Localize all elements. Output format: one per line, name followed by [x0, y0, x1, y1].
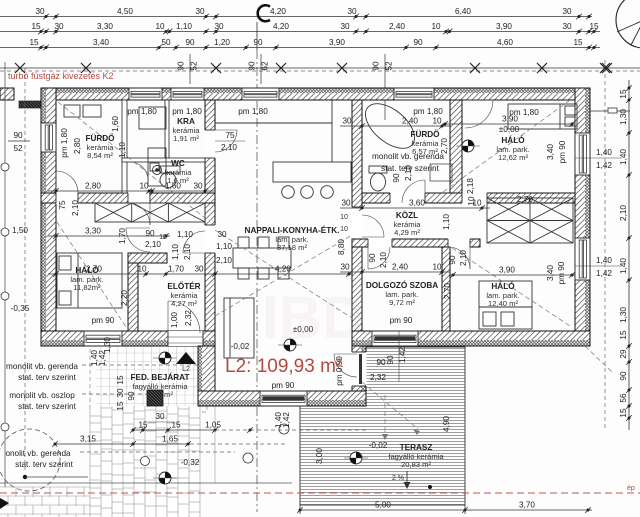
- svg-text:1,00: 1,00: [170, 312, 179, 328]
- terrace slope arrow: [392, 471, 432, 489]
- exterior wall: left: [41, 88, 56, 346]
- north symbol: [616, 0, 640, 48]
- svg-text:90: 90: [619, 371, 628, 381]
- svg-text:1,10: 1,10: [171, 244, 180, 260]
- svg-text:15: 15: [619, 89, 628, 99]
- svg-text:2,40: 2,40: [392, 263, 408, 272]
- svg-text:10: 10: [139, 182, 149, 191]
- svg-text:15: 15: [171, 421, 181, 430]
- svg-text:90: 90: [368, 253, 377, 263]
- svg-text:2,70: 2,70: [443, 283, 452, 299]
- closet unit: [487, 198, 573, 243]
- svg-text:52: 52: [190, 61, 199, 71]
- svg-text:3,30: 3,30: [85, 227, 101, 236]
- bed top-right: [508, 104, 577, 129]
- svg-text:1,10: 1,10: [177, 230, 193, 239]
- svg-text:3,40: 3,40: [93, 38, 109, 47]
- flue stub: [19, 101, 41, 108]
- red dashed boundary: [0, 492, 640, 494]
- svg-text:30: 30: [340, 263, 350, 272]
- svg-text:4,20: 4,20: [273, 22, 289, 31]
- svg-text:15: 15: [31, 22, 41, 31]
- terrace door: [334, 331, 407, 386]
- room labels: [85, 132, 115, 160]
- svg-text:1,20: 1,20: [214, 38, 230, 47]
- dashed diagonals: [57, 98, 612, 440]
- svg-text:2,10: 2,10: [145, 240, 161, 249]
- dining table and chairs: [233, 248, 291, 268]
- wc toilet: [150, 163, 159, 171]
- svg-text:4,50: 4,50: [117, 7, 133, 16]
- svg-text:30: 30: [217, 230, 227, 239]
- partition P1: [122, 100, 127, 193]
- svg-text:15: 15: [573, 38, 583, 47]
- svg-text:1,40: 1,40: [274, 412, 283, 428]
- svg-text:2,80: 2,80: [85, 182, 101, 191]
- svg-text:15: 15: [116, 401, 125, 411]
- interior wall IW6 dolgozo east: [442, 247, 450, 331]
- interior wall IW3 bath block south: [41, 193, 215, 203]
- level labels: [181, 125, 520, 467]
- svg-text:30: 30: [347, 7, 357, 16]
- black triangle left edge: [0, 498, 9, 509]
- bed bottom-right: [479, 281, 532, 329]
- svg-text:DOLGOZÓ SZOBA: DOLGOZÓ SZOBA: [366, 279, 438, 290]
- porch column: [147, 390, 163, 406]
- svg-text:10: 10: [432, 117, 442, 126]
- svg-text:90: 90: [372, 61, 381, 71]
- bottom entrance dims: [52, 412, 368, 447]
- svg-text:ép: ép: [627, 485, 635, 492]
- svg-text:2,10: 2,10: [619, 205, 628, 221]
- svg-text:90: 90: [185, 38, 195, 47]
- svg-text:3,00: 3,00: [315, 448, 324, 464]
- bottom dim line: [297, 501, 592, 515]
- flue axis marks: [177, 54, 394, 120]
- svg-text:10: 10: [432, 263, 442, 272]
- svg-text:30: 30: [116, 388, 125, 398]
- svg-text:2,10: 2,10: [459, 250, 468, 266]
- svg-text:1,70: 1,70: [118, 228, 127, 244]
- svg-text:4,90: 4,90: [442, 416, 451, 432]
- svg-text:15: 15: [116, 375, 125, 385]
- svg-text:12,62 m²: 12,62 m²: [498, 153, 528, 162]
- svg-text:1,42: 1,42: [282, 412, 291, 428]
- svg-text:8,54 m²: 8,54 m²: [87, 151, 113, 160]
- walkway paving: [90, 406, 200, 517]
- svg-text:2,40: 2,40: [389, 22, 405, 31]
- interior wall IW2 nappali east: [352, 100, 362, 331]
- interior wall IW8 eloter west: [128, 253, 138, 331]
- svg-text:-0,02: -0,02: [369, 441, 388, 450]
- svg-text:pm 90: pm 90: [558, 140, 567, 163]
- toilet furdo2: [369, 166, 387, 173]
- svg-text:IBD: IBD: [262, 284, 365, 351]
- svg-text:30: 30: [342, 117, 352, 126]
- svg-text:90: 90: [413, 38, 423, 47]
- svg-text:2,10: 2,10: [379, 252, 388, 268]
- svg-text:90: 90: [13, 131, 23, 140]
- monolit notes: [5, 362, 289, 469]
- svg-text:KÖZL: KÖZL: [396, 210, 418, 220]
- svg-text:30: 30: [340, 22, 350, 31]
- svg-text:pm 1,80: pm 1,80: [127, 107, 157, 116]
- svg-text:52: 52: [13, 144, 23, 153]
- svg-text:KRA: KRA: [177, 117, 195, 126]
- svg-text:50: 50: [161, 38, 171, 47]
- svg-text:monolit vb. gerenda: monolit vb. gerenda: [6, 362, 78, 371]
- svg-text:stat. terv szerint: stat. terv szerint: [18, 402, 77, 411]
- svg-text:NAPPALI-KONYHA-ÉTK.: NAPPALI-KONYHA-ÉTK.: [245, 225, 340, 235]
- svg-text:-0,32: -0,32: [181, 458, 200, 467]
- svg-text:30: 30: [54, 22, 64, 31]
- svg-text:9,72 m²: 9,72 m²: [389, 298, 415, 307]
- shaft shelf and boiler: [139, 107, 166, 129]
- svg-text:2 %: 2 %: [392, 475, 404, 482]
- svg-text:1,70: 1,70: [168, 265, 184, 274]
- svg-text:30: 30: [562, 7, 572, 16]
- svg-text:90: 90: [392, 173, 401, 183]
- svg-text:FÜRDŐ: FÜRDŐ: [85, 132, 115, 143]
- svg-text:2,10: 2,10: [216, 256, 232, 265]
- svg-text:pm 1,80: pm 1,80: [172, 107, 202, 116]
- porch tiles FED.BEJARAT: [96, 347, 198, 406]
- exterior wall: top: [41, 88, 590, 100]
- svg-text:FED. BEJÁRAT: FED. BEJÁRAT: [131, 372, 190, 382]
- svg-text:15: 15: [619, 330, 628, 340]
- svg-text:1,60: 1,60: [111, 116, 120, 132]
- svg-text:30: 30: [562, 22, 572, 31]
- kitchen counter: [215, 122, 332, 124]
- svg-text:-0,02: -0,02: [231, 342, 250, 351]
- svg-text:20,83 m²: 20,83 m²: [401, 460, 431, 469]
- svg-text:30: 30: [35, 7, 45, 16]
- svg-text:FÜRDŐ: FÜRDŐ: [410, 128, 440, 139]
- svg-text:1,40: 1,40: [619, 149, 628, 165]
- porch overhang dashed: [90, 341, 207, 412]
- svg-text:5,00: 5,00: [375, 501, 391, 510]
- svg-text:90: 90: [448, 255, 457, 265]
- svg-text:10: 10: [137, 265, 147, 274]
- section line C: [257, 5, 270, 512]
- top dimension line 2: [0, 22, 600, 34]
- svg-text:56: 56: [619, 393, 628, 403]
- svg-text:-0,35: -0,35: [11, 304, 30, 313]
- svg-text:2,10: 2,10: [183, 244, 192, 260]
- svg-text:90: 90: [386, 355, 395, 365]
- svg-text:1,65: 1,65: [162, 435, 178, 444]
- svg-text:1,10: 1,10: [118, 142, 127, 158]
- svg-text:1,42: 1,42: [596, 269, 612, 278]
- svg-text:10: 10: [467, 196, 476, 206]
- svg-text:30: 30: [155, 412, 165, 421]
- pm labels: [92, 107, 540, 390]
- svg-text:30: 30: [195, 7, 205, 16]
- svg-text:75: 75: [58, 200, 67, 210]
- svg-text:1,42: 1,42: [398, 347, 407, 363]
- exterior wall: right: [575, 88, 590, 346]
- svg-text:52: 52: [385, 61, 394, 71]
- exterior wall: porch east: [352, 346, 366, 391]
- svg-text:pm 90: pm 90: [272, 381, 295, 390]
- svg-text:30: 30: [193, 182, 203, 191]
- svg-text:11,82m²: 11,82m²: [73, 283, 101, 292]
- svg-text:1,40: 1,40: [596, 256, 612, 265]
- svg-text:3,40: 3,40: [546, 265, 555, 281]
- svg-text:TERASZ: TERASZ: [400, 443, 433, 452]
- svg-text:15: 15: [589, 22, 599, 31]
- svg-text:4,20: 4,20: [270, 7, 286, 16]
- svg-text:pm 90: pm 90: [557, 261, 566, 284]
- entrance triangle: [176, 352, 196, 364]
- svg-text:2,32: 2,32: [370, 373, 386, 382]
- svg-text:turbó füstgáz kivezetés K2: turbó füstgáz kivezetés K2: [8, 71, 114, 81]
- exterior wall: porch south: [198, 391, 366, 406]
- svg-text:6,57 m²: 6,57 m²: [412, 147, 438, 156]
- svg-text:HÁLÓ: HÁLÓ: [491, 280, 515, 291]
- interior dims: [48, 115, 575, 278]
- svg-text:6,40: 6,40: [455, 7, 471, 16]
- svg-text:1,50: 1,50: [12, 226, 28, 235]
- svg-text:2,10: 2,10: [404, 165, 413, 181]
- level markers: [462, 140, 474, 152]
- partition P3: [122, 158, 205, 162]
- svg-text:3,90: 3,90: [499, 266, 515, 275]
- svg-text:10: 10: [340, 214, 348, 221]
- svg-text:10: 10: [431, 22, 441, 31]
- svg-text:12,40 m²: 12,40 m²: [488, 299, 518, 308]
- svg-text:30: 30: [194, 265, 204, 274]
- svg-text:3,90: 3,90: [329, 38, 345, 47]
- exterior wall: porch west: [198, 346, 215, 406]
- svg-text:ELŐTÉR: ELŐTÉR: [167, 280, 200, 291]
- svg-text:2,32: 2,32: [184, 310, 193, 326]
- svg-text:pm 1,80: pm 1,80: [60, 128, 69, 158]
- svg-text:90: 90: [248, 61, 257, 71]
- svg-text:monolit vb. oszlop: monolit vb. oszlop: [9, 391, 75, 400]
- sofa / island: [224, 298, 254, 358]
- svg-text:4,27 m²: 4,27 m²: [171, 299, 197, 308]
- neighbor wall stub: [0, 88, 14, 100]
- svg-text:29: 29: [619, 349, 628, 359]
- interior wall IW5 kozl south: [352, 239, 480, 247]
- svg-text:onolit vb. gerenda: onolit vb. gerenda: [5, 449, 71, 458]
- svg-text:1,05: 1,05: [205, 421, 221, 430]
- brick paving bottom left: [0, 487, 90, 517]
- svg-text:3,70: 3,70: [519, 501, 535, 510]
- svg-text:1,60: 1,60: [165, 182, 181, 191]
- svg-text:±0,00: ±0,00: [499, 125, 520, 134]
- svg-text:stat. terv szerint: stat. terv szerint: [15, 460, 74, 469]
- svg-text:pm 1,80: pm 1,80: [413, 107, 443, 116]
- svg-text:4,29 m²: 4,29 m²: [394, 228, 420, 237]
- svg-text:90: 90: [177, 61, 186, 71]
- washer/dryer furdo1: [64, 105, 80, 117]
- door arcs: [56, 100, 493, 333]
- svg-text:10: 10: [155, 22, 165, 31]
- svg-text:62: 62: [261, 61, 270, 71]
- svg-text:2,20: 2,20: [120, 290, 129, 306]
- svg-text:15: 15: [619, 408, 628, 418]
- svg-text:2,10: 2,10: [221, 143, 237, 152]
- interior wall IW1 nappali west: [205, 100, 215, 331]
- svg-text:2,18: 2,18: [466, 178, 475, 194]
- svg-text:1,42: 1,42: [596, 161, 612, 170]
- svg-text:3,90: 3,90: [496, 22, 512, 31]
- svg-text:2,70: 2,70: [86, 265, 102, 274]
- terrace deck: [300, 347, 465, 505]
- svg-text:37,18 m²: 37,18 m²: [277, 243, 307, 252]
- svg-text:2,10: 2,10: [71, 200, 80, 216]
- svg-text:L2: L2: [182, 366, 190, 373]
- top dimension line 1: [0, 7, 592, 19]
- svg-text:pm 1,80: pm 1,80: [509, 108, 539, 117]
- svg-text:3,15: 3,15: [80, 435, 96, 444]
- svg-text:90: 90: [145, 229, 155, 238]
- partition P2: [165, 100, 169, 158]
- right dim column: [575, 60, 632, 430]
- svg-text:3,60: 3,60: [409, 199, 425, 208]
- svg-text:1,10: 1,10: [216, 242, 232, 251]
- interior wall IW4 top of kozl: [362, 193, 575, 203]
- svg-text:90: 90: [127, 391, 136, 401]
- bathtub furdo2: [358, 95, 423, 157]
- interior wall IW8 stub: [128, 253, 167, 263]
- svg-text:4,60: 4,60: [497, 38, 513, 47]
- svg-text:HÁLÓ: HÁLÓ: [501, 134, 525, 145]
- svg-text:2,70: 2,70: [440, 138, 449, 154]
- rotated labels: [58, 116, 567, 464]
- svg-text:3,40: 3,40: [546, 144, 555, 160]
- svg-text:stat. terv szerint: stat. terv szerint: [18, 373, 77, 382]
- svg-text:1,40: 1,40: [596, 148, 612, 157]
- hall wardrobe: [95, 203, 205, 222]
- svg-text:4,20: 4,20: [275, 265, 291, 274]
- exterior wall: bottom right: [352, 331, 590, 346]
- utility line left: [1, 62, 25, 487]
- svg-text:pm 90: pm 90: [92, 316, 115, 325]
- svg-text:15: 15: [29, 38, 39, 47]
- svg-text:90: 90: [376, 358, 386, 367]
- svg-text:90: 90: [253, 38, 263, 47]
- svg-text:30: 30: [341, 199, 351, 208]
- top dimension line 3: [0, 38, 600, 50]
- svg-text:1,30: 1,30: [619, 307, 628, 323]
- svg-text:1,91 m²: 1,91 m²: [173, 134, 199, 143]
- fence line: [0, 63, 640, 73]
- svg-text:75: 75: [225, 131, 235, 140]
- svg-text:2,70: 2,70: [517, 195, 533, 204]
- svg-text:L2: 109,93 m²: L2: 109,93 m²: [225, 356, 342, 377]
- svg-text:3,30: 3,30: [97, 22, 113, 31]
- left dims: [8, 131, 30, 313]
- svg-text:WC: WC: [171, 159, 185, 168]
- svg-text:1,42: 1,42: [98, 350, 107, 366]
- svg-text:pm 1,80: pm 1,80: [238, 107, 268, 116]
- interior wall IW7 furdo2 east: [450, 100, 462, 193]
- svg-text:10: 10: [340, 226, 348, 233]
- svg-text:15: 15: [138, 421, 148, 430]
- svg-text:2,40: 2,40: [402, 117, 418, 126]
- svg-text:1,10: 1,10: [442, 214, 451, 230]
- dashed detail circle: [0, 429, 60, 491]
- svg-text:1,10: 1,10: [176, 22, 192, 31]
- svg-text:30: 30: [214, 22, 224, 31]
- svg-text:2,80: 2,80: [73, 138, 82, 154]
- exterior wall: bottom left: [41, 331, 215, 346]
- svg-text:8,80: 8,80: [337, 239, 346, 255]
- bed bottom-left: [57, 253, 122, 308]
- svg-text:pm 90: pm 90: [390, 316, 413, 325]
